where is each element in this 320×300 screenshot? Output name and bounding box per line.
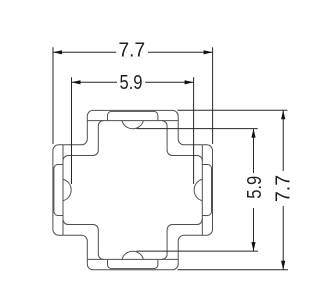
extension line, 7.7 right lower: [178, 269, 289, 271]
extension line, 5.9 top right: [193, 77, 195, 184]
arrowhead 7.7 top right: [204, 50, 213, 54]
inner cover edge, right line: [201, 145, 203, 235]
extension line, 7.7 top left: [52, 47, 54, 144]
arrowhead 5.9 top left: [72, 80, 81, 84]
svg-text:7.7: 7.7: [119, 40, 146, 62]
top tab: [108, 111, 158, 120]
arrowhead 7.7 top left: [53, 50, 62, 54]
bottom tab: [108, 259, 158, 268]
arrowhead 5.9 top right: [185, 80, 194, 84]
arrowhead 7.7 right top: [281, 110, 285, 119]
left tab: [54, 165, 63, 216]
inner cover edge, bottom line: [87, 258, 178, 260]
inner corner hook, bottom-left: [63, 219, 104, 259]
svg-text:5.9: 5.9: [244, 176, 266, 199]
outer body outline (plus-shaped, rounded corners): [53, 110, 213, 269]
inner corner hook, top-right: [162, 121, 202, 161]
dimension line 7.7 right vertical: [282, 110, 284, 269]
right bump arc: [194, 179, 202, 201]
dimension line 7.7 top: [53, 51, 213, 53]
extension line, 7.7 top right: [212, 47, 214, 144]
arrowhead 7.7 right bottom: [281, 261, 285, 270]
inner cover edge, top line: [87, 120, 178, 122]
svg-text:7.7: 7.7: [273, 175, 295, 202]
bottom bump arc: [122, 251, 144, 259]
extension line, 5.9 top left: [71, 77, 73, 184]
extension line, 5.9 right upper: [137, 128, 258, 130]
svg-text:5.9: 5.9: [120, 72, 143, 94]
extension line, 5.9 right lower: [137, 250, 259, 252]
inner corner hook, top-left: [63, 121, 104, 161]
extension line, 7.7 right upper: [178, 109, 288, 111]
arrowhead 5.9 right top: [251, 129, 255, 138]
arrowhead 5.9 right bottom: [251, 242, 255, 251]
top bump arc: [122, 121, 144, 129]
inner corner hook, bottom-right: [162, 219, 202, 259]
dimension line 5.9 right vertical: [253, 129, 255, 252]
dimension line 5.9 top: [72, 81, 194, 83]
right tab: [202, 165, 211, 216]
inner cover edge, left line: [62, 145, 64, 235]
left bump arc: [63, 179, 71, 201]
